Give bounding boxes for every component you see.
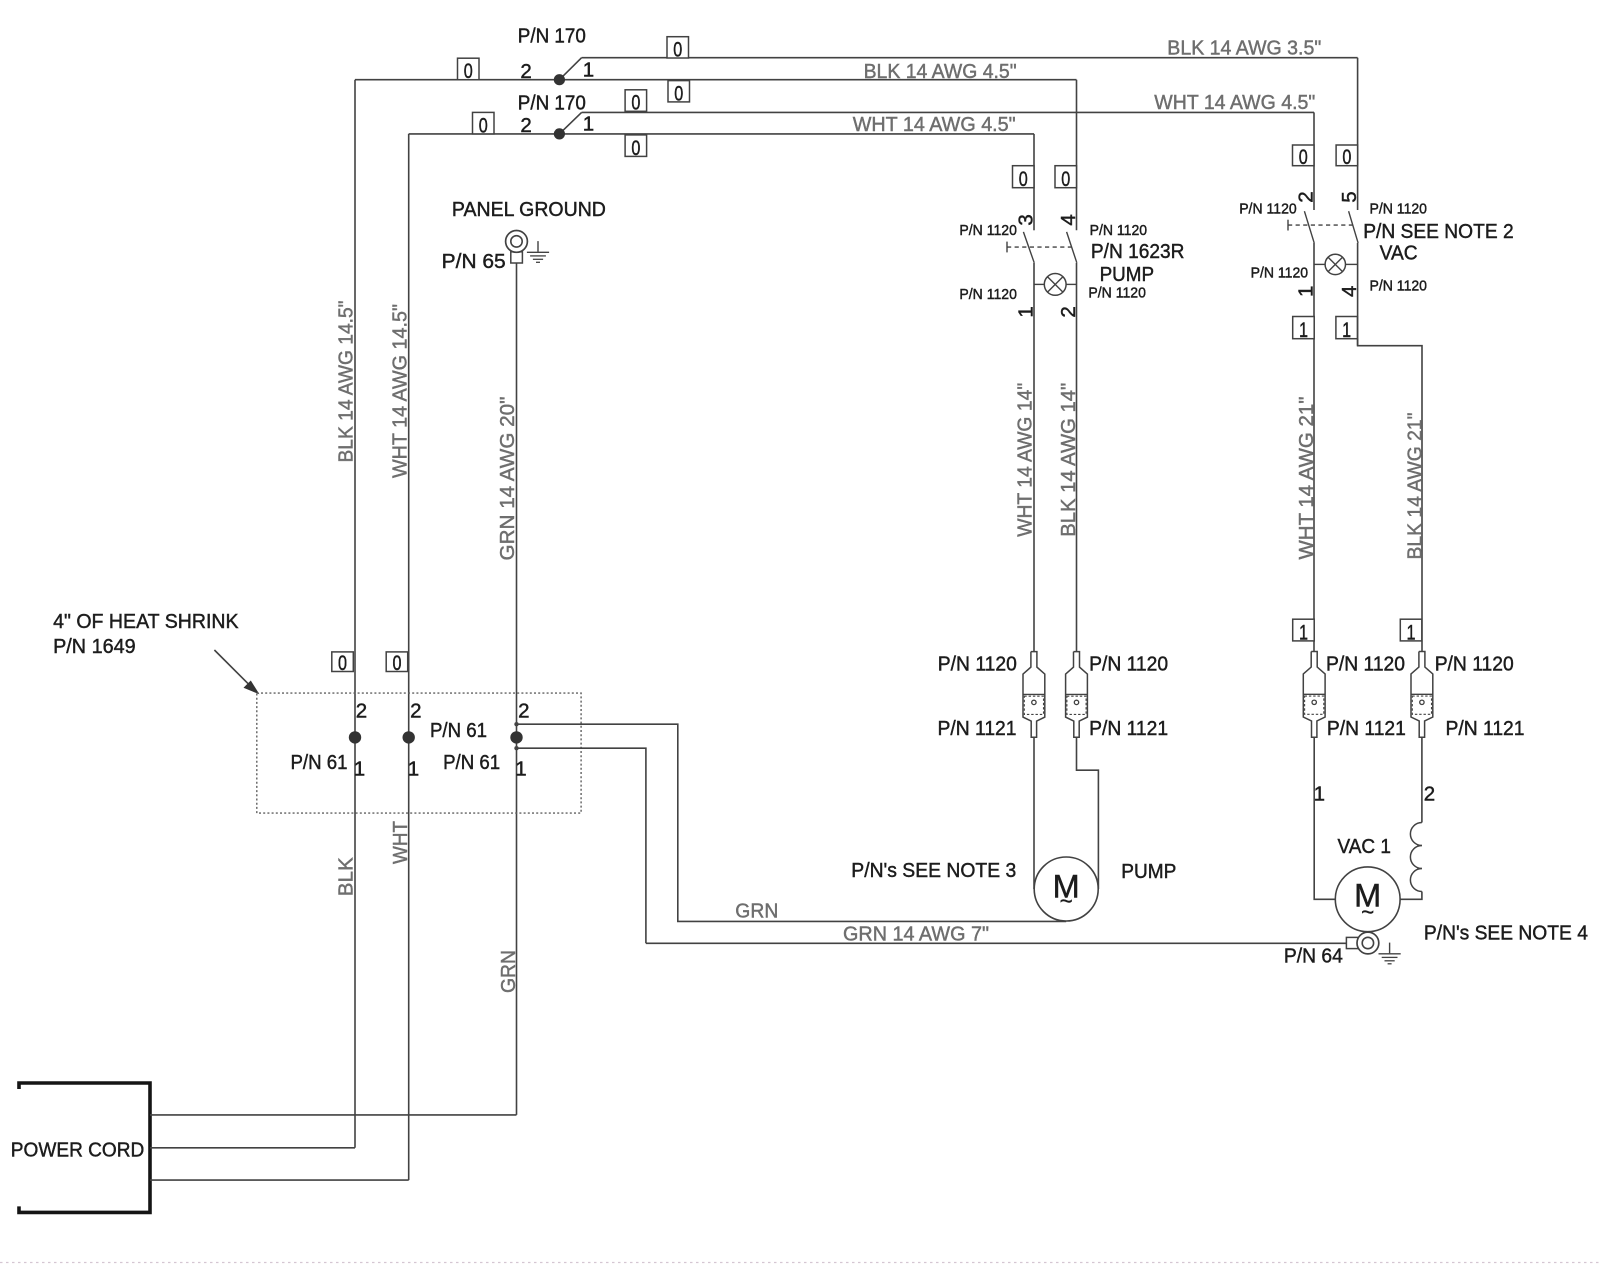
vac switch pin 5 label xyxy=(1338,191,1361,202)
vac motor M VAC 1 xyxy=(1335,867,1400,932)
wire BLK vac below switch xyxy=(1357,243,1359,346)
svg-text:1: 1 xyxy=(1299,621,1308,644)
label 4in OF HEAT SHRINK xyxy=(53,610,239,633)
svg-text:~: ~ xyxy=(1060,889,1073,914)
svg-text:0: 0 xyxy=(392,652,401,675)
svg-text:2: 2 xyxy=(520,114,531,137)
svg-text:P/N 1120: P/N 1120 xyxy=(1370,200,1428,217)
wire marker 0 on WHT left segment xyxy=(473,112,495,137)
label BLK 14 AWG 3.5in xyxy=(1167,37,1321,60)
label WHT 14 AWG 14.5in rotated xyxy=(388,304,411,478)
pump switch pin 4 label xyxy=(1057,214,1080,225)
page border dotted xyxy=(0,1262,1600,1264)
vac motor pin 1 label xyxy=(1314,783,1325,806)
svg-text:~: ~ xyxy=(1361,900,1374,925)
splice P/N 61 BLK labels xyxy=(291,700,368,781)
label P/N 1623R xyxy=(1091,240,1185,263)
svg-text:P/N's SEE NOTE 3: P/N's SEE NOTE 3 xyxy=(851,859,1016,882)
vac switch blade right xyxy=(1349,211,1359,243)
vac switch P/N 1120 mid-left xyxy=(1251,264,1309,281)
wire BLK to pump motor jog xyxy=(1077,737,1099,889)
svg-text:P/N 1120: P/N 1120 xyxy=(1239,200,1297,217)
svg-text:BLK 14 AWG 21": BLK 14 AWG 21" xyxy=(1403,413,1426,560)
svg-text:2: 2 xyxy=(1294,191,1317,202)
wire marker 0 on BLK 4.5in right of splice xyxy=(668,81,690,106)
svg-text:1: 1 xyxy=(1342,319,1351,342)
vac switch P/N 1120 top-left xyxy=(1239,200,1297,217)
heat shrink dashed box xyxy=(257,693,581,813)
label P/N's SEE NOTE 4 xyxy=(1424,921,1588,944)
svg-text:0: 0 xyxy=(673,38,682,61)
svg-text:P/N 64: P/N 64 xyxy=(1284,944,1343,967)
svg-text:2: 2 xyxy=(518,700,529,723)
wire WHT 14 AWG 4.5in branch to vac switch xyxy=(559,112,1314,133)
svg-text:P/N 1121: P/N 1121 xyxy=(938,717,1017,740)
svg-text:0: 0 xyxy=(1019,168,1028,191)
wire BLK pump vertical lower xyxy=(1076,263,1078,652)
vac indicator lamp xyxy=(1314,254,1358,274)
svg-text:P/N 1120: P/N 1120 xyxy=(1370,277,1428,294)
wire WHT vac vertical lower xyxy=(1313,243,1315,652)
wire GRN branch to pump motor xyxy=(514,722,1066,921)
label GRN 14 AWG 20in rotated xyxy=(496,397,519,561)
wire marker 0 on BLK left segment xyxy=(458,58,480,83)
svg-text:2: 2 xyxy=(356,700,367,723)
splice P/N 61 GRN labels xyxy=(430,700,530,781)
svg-text:P/N 61: P/N 61 xyxy=(443,751,500,774)
svg-text:1: 1 xyxy=(354,758,365,781)
splice P/N 61 WHT labels xyxy=(408,700,422,781)
label P/N 1121 pump terminal right xyxy=(1089,717,1168,740)
wire WHT 14.5in vertical from power cord to splice P/N 170 #2 xyxy=(408,134,410,1180)
wire marker 0 on vac BLK xyxy=(1336,145,1358,169)
svg-text:2: 2 xyxy=(520,60,531,83)
label GRN 14 AWG 7in xyxy=(843,923,989,946)
label GRN rotated xyxy=(497,950,520,993)
svg-text:1: 1 xyxy=(408,758,419,781)
splice P/N 61 BLK dot xyxy=(349,731,361,743)
svg-text:GRN 14 AWG 20": GRN 14 AWG 20" xyxy=(496,397,519,561)
svg-text:BLK 14 AWG 14.5": BLK 14 AWG 14.5" xyxy=(335,301,358,463)
pump switch P/N 1120 mid-right xyxy=(1088,284,1146,301)
wire marker 1 on vac BLK below switch xyxy=(1336,317,1358,343)
wire WHT pump vertical upper xyxy=(1033,134,1035,230)
svg-text:WHT 14 AWG 4.5": WHT 14 AWG 4.5" xyxy=(1154,91,1315,114)
svg-text:P/N 1120: P/N 1120 xyxy=(938,653,1017,676)
label WHT 14 AWG 4.5in vac xyxy=(1154,91,1315,114)
pump switch P/N 1120 top-left xyxy=(959,222,1017,239)
svg-text:PANEL GROUND: PANEL GROUND xyxy=(452,198,606,221)
vac switch pin 4 label xyxy=(1338,286,1361,297)
svg-text:BLK 14 AWG 3.5": BLK 14 AWG 3.5" xyxy=(1167,37,1321,60)
svg-text:1: 1 xyxy=(1314,783,1325,806)
label BLK 14 AWG 21in rotated xyxy=(1403,413,1426,560)
svg-text:3: 3 xyxy=(1014,214,1037,225)
svg-text:WHT 14 AWG 14.5": WHT 14 AWG 14.5" xyxy=(388,304,411,478)
wire marker 0 on BLK 3.5in branch xyxy=(667,37,689,62)
svg-text:2: 2 xyxy=(1424,783,1435,806)
svg-text:BLK: BLK xyxy=(335,857,358,896)
label PUMP motor xyxy=(1121,860,1176,883)
vac switch pin 1 label xyxy=(1294,286,1317,297)
wire marker 0 on pump BLK xyxy=(1055,166,1077,191)
svg-text:POWER CORD: POWER CORD xyxy=(11,1138,145,1161)
svg-text:BLK 14 AWG 4.5": BLK 14 AWG 4.5" xyxy=(864,60,1017,83)
vac switch blade left xyxy=(1304,211,1314,243)
label P/N 1121 pump terminal left xyxy=(938,717,1017,740)
svg-text:P/N 61: P/N 61 xyxy=(291,751,348,774)
vac switch pin 2 label xyxy=(1294,191,1317,202)
svg-text:P/N 170: P/N 170 xyxy=(518,92,586,115)
svg-text:WHT 14 AWG 21": WHT 14 AWG 21" xyxy=(1295,397,1318,560)
wire marker 0 on pump WHT xyxy=(1013,166,1035,191)
terminal P/N 1120/1121 pump BLK xyxy=(1066,652,1088,738)
label GRN xyxy=(735,900,778,923)
svg-text:2: 2 xyxy=(1057,306,1080,317)
svg-text:4: 4 xyxy=(1338,286,1361,297)
svg-text:2: 2 xyxy=(410,700,421,723)
splice P/N 170 #2 labels xyxy=(518,92,594,138)
svg-text:0: 0 xyxy=(631,92,640,115)
wire GRN 14 AWG 7in horizontal xyxy=(646,942,1347,944)
label P/N 1649 xyxy=(53,635,136,658)
inductor vac motor winding xyxy=(1410,823,1421,892)
label P/N 1120 pump terminal right xyxy=(1089,653,1168,676)
svg-text:P/N 1120: P/N 1120 xyxy=(959,286,1017,303)
svg-text:0: 0 xyxy=(1299,146,1308,169)
pump switch blade left xyxy=(1023,232,1034,263)
pump indicator lamp xyxy=(1034,274,1077,296)
vac switch linkage dashed xyxy=(1288,220,1353,231)
wire WHT pump vertical lower xyxy=(1033,263,1035,652)
wire WHT to pump motor xyxy=(1033,737,1035,889)
svg-text:0: 0 xyxy=(338,652,347,675)
pump switch pin 1 label xyxy=(1014,306,1037,317)
svg-text:5: 5 xyxy=(1338,191,1361,202)
svg-text:P/N 1623R: P/N 1623R xyxy=(1091,240,1185,263)
svg-text:P/N 65: P/N 65 xyxy=(442,250,506,273)
svg-text:P/N 1120: P/N 1120 xyxy=(1088,284,1146,301)
label VAC 1 xyxy=(1338,835,1392,858)
svg-text:1: 1 xyxy=(583,59,594,82)
svg-text:0: 0 xyxy=(631,137,640,160)
splice P/N 170 #2 junction dot xyxy=(554,128,565,139)
power cord box xyxy=(19,1083,150,1212)
splice P/N 170 #1 junction dot xyxy=(554,74,565,85)
svg-text:VAC 1: VAC 1 xyxy=(1338,835,1392,858)
label POWER CORD xyxy=(11,1138,145,1161)
svg-text:PUMP: PUMP xyxy=(1100,263,1155,286)
svg-text:1: 1 xyxy=(1014,306,1037,317)
pump switch blade right xyxy=(1067,232,1077,263)
vac motor pin 2 label xyxy=(1424,783,1435,806)
svg-text:BLK 14 AWG 14": BLK 14 AWG 14" xyxy=(1057,383,1080,537)
vac switch P/N 1120 top-right xyxy=(1370,200,1428,217)
wire BLK 14 AWG 4.5in horizontal to pump switch xyxy=(355,79,1077,81)
svg-text:1: 1 xyxy=(515,758,526,781)
pump switch pin 2 label xyxy=(1057,306,1080,317)
label P/N 1120 pump terminal left xyxy=(938,653,1017,676)
wire BLK 14.5in vertical from power cord to splice P/N 170 #1 xyxy=(354,80,356,1148)
svg-text:GRN 14 AWG 7": GRN 14 AWG 7" xyxy=(843,923,989,946)
wire power cord BLK lead xyxy=(150,1147,355,1149)
wire marker 1 on vac WHT below switch xyxy=(1293,317,1315,343)
label WHT 14 AWG 4.5in pump xyxy=(853,113,1016,136)
wire marker 1 on vac BLK above terminal xyxy=(1400,619,1422,644)
wire BLK vac jog right xyxy=(1358,339,1422,652)
svg-text:P/N 1120: P/N 1120 xyxy=(1435,653,1514,676)
ring terminal P/N 65 xyxy=(506,231,528,264)
label P/N 65 xyxy=(442,250,506,273)
label PUMP switch xyxy=(1100,263,1155,286)
label BLK 14 AWG 14in rotated xyxy=(1057,383,1080,537)
ring terminal P/N 64 xyxy=(1346,932,1378,954)
pump motor M xyxy=(1034,857,1098,921)
svg-text:GRN: GRN xyxy=(497,950,520,993)
wire WHT vac vertical upper xyxy=(1313,112,1315,210)
splice P/N 170 #1 labels xyxy=(518,25,594,83)
arrow to heat shrink box xyxy=(214,650,259,694)
label WHT 14 AWG 14in rotated xyxy=(1014,383,1037,537)
wire marker 0 on BLK at heat shrink xyxy=(332,652,354,675)
svg-text:WHT 14 AWG 14": WHT 14 AWG 14" xyxy=(1014,383,1037,537)
pump switch P/N 1120 top-right xyxy=(1090,222,1148,239)
wire marker 0 on WHT branch xyxy=(625,90,647,115)
label P/N SEE NOTE 2 xyxy=(1363,220,1514,243)
label WHT rotated xyxy=(389,821,412,864)
svg-text:P/N 61: P/N 61 xyxy=(430,719,487,742)
svg-text:0: 0 xyxy=(1342,146,1351,169)
svg-text:0: 0 xyxy=(674,82,683,105)
wire BLK 14 AWG 3.5in branch to vac switch xyxy=(559,58,1357,80)
svg-text:P/N 1121: P/N 1121 xyxy=(1327,717,1406,740)
svg-text:1: 1 xyxy=(1294,286,1317,297)
svg-text:P/N 1649: P/N 1649 xyxy=(53,635,136,658)
splice P/N 61 WHT dot xyxy=(403,731,415,743)
svg-text:GRN: GRN xyxy=(735,900,778,923)
svg-text:P/N SEE NOTE 2: P/N SEE NOTE 2 xyxy=(1363,220,1514,243)
svg-text:P/N 1121: P/N 1121 xyxy=(1089,717,1168,740)
wire WHT 14 AWG 4.5in horizontal to pump switch xyxy=(409,133,1034,135)
label P/N 1121 vac terminal left xyxy=(1327,717,1406,740)
svg-text:0: 0 xyxy=(1061,168,1070,191)
svg-text:4: 4 xyxy=(1057,214,1080,225)
svg-text:P/N 1120: P/N 1120 xyxy=(1090,222,1148,239)
wire BLK pump vertical upper xyxy=(1076,80,1078,231)
wire marker 1 on vac WHT above terminal xyxy=(1293,619,1315,644)
svg-text:1: 1 xyxy=(583,113,594,136)
svg-text:VAC: VAC xyxy=(1380,241,1418,264)
wire BLK vac to inductor xyxy=(1421,737,1423,822)
svg-text:P/N 1120: P/N 1120 xyxy=(1251,264,1309,281)
wire marker 0 on vac WHT xyxy=(1293,145,1315,169)
wire BLK vac vertical upper xyxy=(1357,58,1359,210)
svg-text:P/N 1121: P/N 1121 xyxy=(1446,717,1525,740)
panel ground label xyxy=(452,198,606,221)
terminal P/N 1120/1121 pump WHT xyxy=(1023,652,1045,738)
svg-text:P/N 1120: P/N 1120 xyxy=(959,222,1017,239)
svg-text:4" OF HEAT SHRINK: 4" OF HEAT SHRINK xyxy=(53,610,239,633)
svg-text:WHT 14 AWG 4.5": WHT 14 AWG 4.5" xyxy=(853,113,1016,136)
label P/N's SEE NOTE 3 xyxy=(851,859,1016,882)
wire power cord GRN lead xyxy=(150,1114,517,1116)
svg-text:P/N 170: P/N 170 xyxy=(518,25,586,48)
label P/N 1120 vac terminal left xyxy=(1326,653,1405,676)
svg-text:WHT: WHT xyxy=(389,821,412,864)
svg-text:1: 1 xyxy=(1407,621,1416,644)
label BLK rotated xyxy=(335,857,358,896)
wire power cord WHT lead xyxy=(150,1179,409,1181)
wire inductor to vac motor xyxy=(1400,892,1422,900)
svg-text:0: 0 xyxy=(479,114,488,137)
label BLK 14 AWG 14.5in rotated xyxy=(335,301,358,463)
terminal P/N 1120/1121 vac WHT xyxy=(1303,652,1325,738)
svg-text:P/N 1120: P/N 1120 xyxy=(1089,653,1168,676)
svg-text:1: 1 xyxy=(1299,319,1308,342)
label VAC switch xyxy=(1380,241,1418,264)
splice P/N 61 GRN dot xyxy=(510,731,522,743)
vac switch P/N 1120 mid-right xyxy=(1370,277,1428,294)
pump switch linkage dashed xyxy=(1007,242,1072,253)
label BLK 14 AWG 4.5in xyxy=(864,60,1017,83)
svg-text:PUMP: PUMP xyxy=(1121,860,1176,883)
pump switch P/N 1120 mid-left xyxy=(959,286,1017,303)
svg-text:P/N's SEE NOTE 4: P/N's SEE NOTE 4 xyxy=(1424,921,1588,944)
terminal P/N 1120/1121 vac BLK xyxy=(1411,652,1433,738)
pump switch pin 3 label xyxy=(1014,214,1037,225)
label P/N 1121 vac terminal right xyxy=(1446,717,1525,740)
vac motor earth symbol xyxy=(1379,943,1401,964)
panel ground earth symbol xyxy=(527,241,549,262)
label WHT 14 AWG 21in rotated xyxy=(1295,397,1318,560)
svg-text:0: 0 xyxy=(464,60,473,83)
wire marker 0 on WHT 4.5in right of splice xyxy=(625,135,647,160)
wire GRN branch to vac ground xyxy=(514,746,646,943)
label P/N 64 xyxy=(1284,944,1343,967)
svg-text:P/N 1120: P/N 1120 xyxy=(1326,653,1405,676)
wire marker 0 on WHT at heat shrink xyxy=(386,652,408,675)
wire WHT to vac motor xyxy=(1314,737,1335,899)
label P/N 1120 vac terminal right xyxy=(1435,653,1514,676)
wire GRN 20in vertical from power cord through splice to panel ground lug xyxy=(516,263,518,1115)
